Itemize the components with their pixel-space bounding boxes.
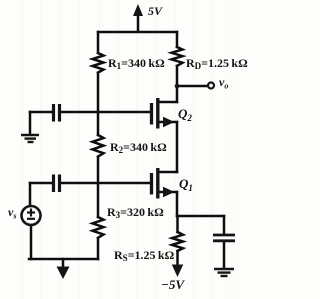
svg-text:R1=340 kΩ: R1=340 kΩ [108, 56, 165, 71]
svg-text:R2=340 kΩ: R2=340 kΩ [110, 140, 167, 155]
svg-text:5V: 5V [148, 4, 163, 18]
svg-text:−5V: −5V [161, 277, 185, 292]
svg-text:R3=320 kΩ: R3=320 kΩ [107, 205, 164, 220]
